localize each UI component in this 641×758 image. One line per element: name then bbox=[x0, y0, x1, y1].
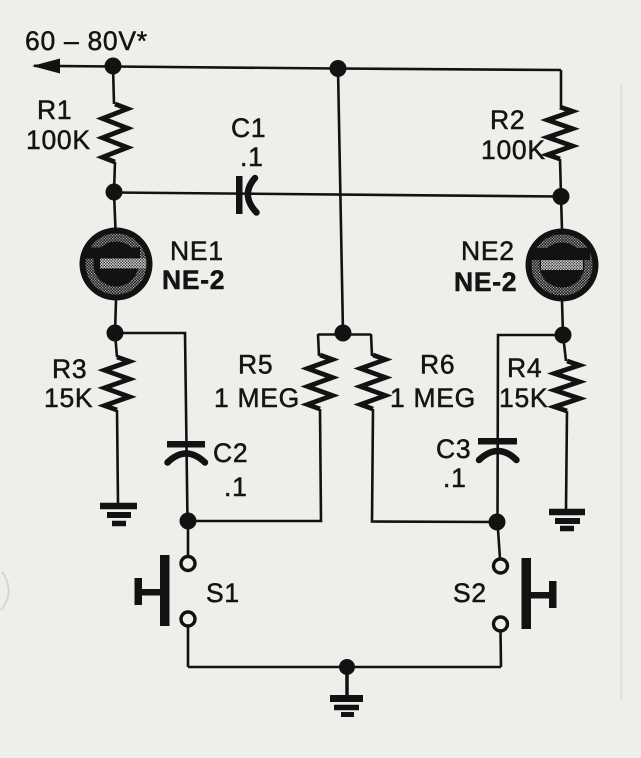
label R4 15K bbox=[499, 353, 548, 413]
capacitor C1 bbox=[236, 176, 257, 214]
resistor R3 bbox=[105, 357, 130, 410]
switch S2 bbox=[494, 558, 557, 631]
label R5 1 MEG bbox=[214, 350, 300, 414]
resistor R1 bbox=[103, 104, 128, 162]
switch S1 bbox=[135, 555, 196, 626]
node C2-S1 junction bbox=[180, 513, 197, 530]
wire R3 top lead bbox=[115, 333, 117, 357]
wire R2 to node bbox=[560, 159, 561, 196]
wire right column top lead bbox=[560, 70, 563, 107]
scan artifact right edge band bbox=[621, 85, 623, 700]
svg-text:R6: R6 bbox=[420, 350, 455, 380]
label C3 .1 bbox=[436, 434, 471, 493]
svg-text:R3: R3 bbox=[52, 354, 87, 384]
power arrow 60-80V bbox=[32, 59, 60, 74]
scan artifact left edge arc bbox=[1, 572, 9, 610]
svg-text:.1: .1 bbox=[224, 472, 248, 502]
label 60 - 80V* bbox=[25, 26, 148, 56]
node R1-NE1 junction bbox=[106, 184, 123, 201]
capacitor C3 bbox=[478, 438, 517, 460]
svg-text:60 – 80V*: 60 – 80V* bbox=[25, 26, 148, 56]
resistor R4 bbox=[555, 361, 580, 411]
svg-text:C2: C2 bbox=[213, 438, 248, 468]
svg-text:100K: 100K bbox=[26, 125, 91, 155]
node bottom-rail ground junction bbox=[339, 659, 355, 675]
resistor R2 bbox=[548, 107, 573, 159]
wire node to NE1 bbox=[114, 192, 116, 230]
wire mid coupling rail bbox=[114, 193, 561, 197]
svg-text:NE-2: NE-2 bbox=[454, 267, 517, 297]
neon lamp NE2 bbox=[526, 229, 599, 302]
node NE1-R3 junction bbox=[107, 325, 124, 342]
svg-text:1 MEG: 1 MEG bbox=[214, 383, 300, 413]
wire NE1 node to C2 branch bbox=[115, 333, 188, 521]
node R5-R6 junction bbox=[335, 325, 352, 342]
svg-text:R2: R2 bbox=[490, 105, 525, 135]
node R2-NE2 junction bbox=[553, 188, 570, 205]
wire C3 node to S2 bbox=[498, 522, 501, 559]
wire ground stub bbox=[345, 667, 349, 696]
wire top supply rail bbox=[34, 66, 561, 70]
node supply-left junction bbox=[105, 58, 122, 75]
label C2 .1 bbox=[213, 438, 248, 502]
wire R4 to ground bbox=[566, 411, 567, 509]
wire S2 to bottom rail bbox=[499, 631, 502, 667]
wire R1 to node bbox=[114, 162, 115, 192]
wire C2 node to S1 bbox=[187, 521, 190, 556]
ground bottom center bbox=[330, 699, 363, 715]
wire R3 to ground bbox=[117, 410, 118, 503]
wire center column bbox=[338, 69, 343, 334]
wire R4 top lead bbox=[563, 335, 566, 361]
svg-text:S2: S2 bbox=[453, 578, 487, 608]
wire bottom rail bbox=[188, 666, 501, 669]
svg-text:C1: C1 bbox=[231, 113, 266, 143]
label R1 100K bbox=[26, 95, 91, 155]
svg-text:NE1: NE1 bbox=[170, 236, 224, 266]
label R6 1 MEG bbox=[390, 350, 476, 414]
svg-text:1 MEG: 1 MEG bbox=[390, 383, 476, 413]
label S2 bbox=[453, 578, 487, 608]
svg-text:R1: R1 bbox=[37, 95, 72, 125]
node supply-center junction bbox=[330, 60, 347, 77]
label NE2 NE-2 bbox=[454, 236, 517, 297]
node C3-S2 junction bbox=[489, 514, 506, 531]
resistor R6 bbox=[361, 355, 386, 409]
label C1 .1 bbox=[231, 113, 266, 172]
resistor R5 bbox=[308, 355, 333, 409]
wire R6 bottom to C3 node bbox=[372, 409, 497, 522]
wire NE2 bottom lead bbox=[562, 301, 563, 335]
ground under R3 bbox=[100, 506, 137, 524]
ground under R4 bbox=[549, 512, 585, 529]
label R2 100K bbox=[481, 105, 546, 165]
wire S1 to bottom rail bbox=[187, 626, 190, 667]
svg-text:15K: 15K bbox=[499, 383, 548, 413]
svg-text:NE-2: NE-2 bbox=[162, 265, 225, 295]
svg-text:C3: C3 bbox=[436, 434, 471, 464]
svg-text:.1: .1 bbox=[443, 463, 467, 493]
svg-text:S1: S1 bbox=[206, 578, 240, 608]
svg-text:R4: R4 bbox=[507, 353, 542, 383]
svg-text:NE2: NE2 bbox=[461, 236, 515, 266]
wire left column top lead bbox=[113, 66, 114, 104]
wire R5 bottom to C2 node bbox=[188, 409, 321, 521]
neon lamp NE1 bbox=[80, 228, 153, 301]
svg-text:R5: R5 bbox=[238, 350, 273, 380]
label S1 bbox=[206, 578, 240, 608]
wire NE1 bottom lead bbox=[115, 300, 116, 333]
svg-text:15K: 15K bbox=[44, 383, 93, 413]
svg-text:.1: .1 bbox=[240, 142, 264, 172]
node NE2-R4 junction bbox=[555, 327, 572, 344]
wire NE2 node to C3 branch bbox=[498, 335, 564, 522]
capacitor C2 bbox=[167, 441, 205, 463]
svg-text:100K: 100K bbox=[481, 135, 546, 165]
wire node to NE2 bbox=[561, 196, 562, 230]
wire R5-R6 top harness bbox=[318, 334, 372, 356]
label R3 15K bbox=[44, 354, 93, 413]
label NE1 NE-2 bbox=[162, 236, 225, 295]
